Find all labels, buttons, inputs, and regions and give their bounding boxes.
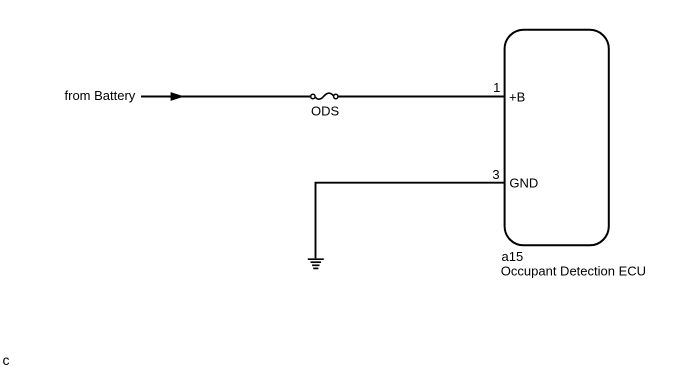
svg-text:GND: GND — [509, 175, 538, 190]
svg-text:+B: +B — [509, 89, 525, 104]
svg-text:a15: a15 — [502, 249, 524, 264]
arrow: current direction on battery feed wire — [171, 92, 185, 101]
svg-text:c: c — [3, 352, 10, 366]
svg-text:ODS: ODS — [311, 104, 340, 119]
svg-text:3: 3 — [492, 167, 499, 182]
svg-text:from Battery: from Battery — [65, 88, 136, 103]
ground symbol — [308, 259, 324, 268]
wire: battery feed to fuse — [141, 96, 310, 98]
wire: pin GND to ground — [316, 183, 504, 259]
svg-text:Occupant Detection ECU: Occupant Detection ECU — [501, 263, 646, 278]
fuse ODS — [311, 93, 338, 99]
ECU box a15 (Occupant Detection ECU) — [505, 30, 609, 246]
svg-text:1: 1 — [493, 80, 500, 95]
wire: fuse to pin +B — [338, 96, 503, 98]
